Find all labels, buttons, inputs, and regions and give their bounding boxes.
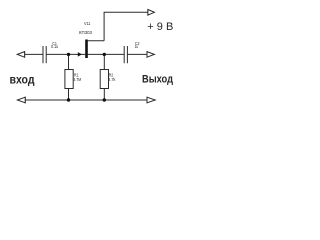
resistor R2 bbox=[100, 70, 108, 89]
svg-text:Выход: Выход bbox=[142, 74, 173, 86]
terminal arrow ground left bbox=[17, 97, 25, 104]
node R2/ground junction bbox=[103, 98, 106, 101]
terminal arrow +9V bbox=[148, 9, 155, 16]
wire R1 top lead bbox=[68, 54, 70, 69]
capacitor C1 bbox=[43, 46, 46, 63]
node gate/R1 junction bbox=[67, 53, 70, 56]
terminal arrow output bbox=[147, 51, 154, 58]
wire ground rail bbox=[25, 99, 147, 101]
wire input to C1 bbox=[25, 53, 43, 55]
capacitor C2 bbox=[124, 46, 127, 63]
wire R2 bottom lead bbox=[103, 89, 105, 101]
transistor V11 channel bar bbox=[85, 40, 88, 59]
svg-text:0.1u: 0.1u bbox=[51, 44, 59, 49]
transistor V11 drain lead bbox=[88, 40, 105, 42]
svg-text:+ 9 В: + 9 В bbox=[147, 21, 173, 33]
wire R2 top lead bbox=[103, 54, 105, 69]
svg-text:КП303: КП303 bbox=[79, 30, 92, 35]
transistor V11 gate arrow bbox=[78, 52, 82, 57]
wire top rail (+9V) bbox=[104, 12, 148, 41]
wire R1 bottom lead bbox=[68, 89, 70, 101]
terminal arrow ground right bbox=[147, 97, 155, 104]
svg-text:V11: V11 bbox=[84, 21, 91, 26]
resistor R1 bbox=[65, 70, 73, 89]
terminal arrow input bbox=[17, 51, 24, 58]
svg-text:1u: 1u bbox=[135, 44, 139, 49]
svg-text:4.7k: 4.7k bbox=[108, 77, 116, 82]
wire C1 to gate bbox=[46, 53, 85, 55]
transistor V11 source lead / wire to C2 bbox=[88, 53, 125, 55]
svg-text:вход: вход bbox=[10, 73, 35, 87]
svg-text:4.7M: 4.7M bbox=[74, 77, 82, 82]
wire C2 to output bbox=[127, 53, 147, 55]
node R1/ground junction bbox=[67, 98, 70, 101]
node source/R2 junction bbox=[103, 53, 106, 56]
